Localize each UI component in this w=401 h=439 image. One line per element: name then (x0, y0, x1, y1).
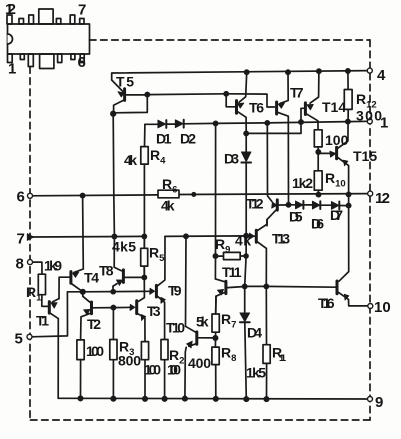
wire T9 collector to T13 base (165, 235, 248, 238)
svg-text:7: 7 (78, 2, 86, 19)
svg-text:D2: D2 (180, 131, 196, 147)
wire T11 emitter to R7 (215, 296, 217, 314)
svg-text:D5: D5 (289, 209, 303, 225)
transistor T15 (318, 122, 348, 195)
wire R10 bottom (317, 190, 319, 194)
node T5 base (145, 93, 149, 97)
svg-text:T10: T10 (166, 320, 185, 336)
svg-text:1k9: 1k9 (44, 258, 62, 274)
svg-text:4k: 4k (235, 233, 251, 249)
svg-text:T13: T13 (272, 231, 290, 247)
transistor T4 (59, 196, 83, 299)
diode D2 (175, 120, 183, 128)
wire pin1 rail (145, 121, 370, 124)
wire diode row (289, 204, 349, 207)
svg-text:4: 4 (377, 67, 386, 84)
svg-text:T5: T5 (116, 74, 134, 90)
node pin12 line T15 emitter (347, 192, 351, 196)
svg-text:100: 100 (86, 343, 104, 359)
svg-text:12: 12 (375, 190, 390, 207)
node pin1 rail T12 emitter tap (265, 121, 269, 125)
svg-text:T3: T3 (147, 303, 161, 319)
svg-text:800: 800 (118, 353, 141, 369)
node rail R11 (264, 397, 268, 401)
wire T6 base lead (226, 94, 235, 107)
wire pin7 line (32, 235, 145, 238)
wire 100 to T15 base node (317, 147, 319, 171)
diode D3 (241, 133, 251, 235)
svg-text:T9: T9 (168, 283, 182, 299)
diode D7 (331, 202, 339, 210)
node T13 base R9 junction (244, 234, 248, 238)
node rail R3 (111, 397, 115, 401)
transistor T11 (215, 279, 244, 314)
svg-text:T15: T15 (353, 148, 377, 164)
wire R4 branch (143, 124, 146, 277)
node T16 base line D4 tap (243, 284, 247, 288)
resistor 100 T3 emitter (141, 342, 148, 360)
svg-text:8: 8 (16, 256, 24, 273)
resistor 100 T2 emitter (77, 340, 84, 360)
transistor T8 (113, 267, 123, 291)
wire tail line to T9 (83, 290, 152, 293)
resistor R1 (38, 274, 45, 295)
svg-text:5: 5 (15, 331, 23, 348)
svg-text:D1: D1 (156, 131, 172, 147)
node R9 right (244, 254, 248, 258)
svg-text:T16: T16 (318, 295, 335, 311)
wire R7 to R8 (214, 332, 216, 347)
node T8 emitter (111, 290, 115, 294)
wire top rail pin4 (112, 71, 370, 80)
node rail D4 (244, 397, 248, 401)
node T15 base (316, 150, 320, 154)
node D2 right junction (214, 121, 218, 125)
node T6 collector D3 anode (244, 131, 248, 135)
svg-text:1k5: 1k5 (246, 365, 266, 381)
svg-text:5k: 5k (196, 314, 209, 330)
svg-text:1k2: 1k2 (292, 175, 313, 191)
wire T10 emitter to rail (185, 347, 186, 398)
svg-text:T4: T4 (84, 270, 99, 286)
svg-text:300: 300 (356, 108, 382, 124)
wire T13 base node down to T16 base line (245, 236, 247, 287)
wire bottom rail (58, 397, 370, 400)
svg-text:T11: T11 (222, 264, 242, 280)
pin 8 terminal (28, 260, 33, 265)
node top rail T7 emitter (286, 70, 290, 74)
wire R8 to rail (215, 365, 217, 399)
svg-text:D6: D6 (311, 216, 324, 232)
svg-text:T7: T7 (290, 85, 304, 101)
svg-text:T12: T12 (246, 196, 264, 212)
node R5 bottom T8 base (142, 275, 146, 279)
svg-text:R4: R4 (150, 147, 166, 167)
wire 100 T3 to rail (144, 360, 146, 399)
wire T15 emitter down to T16 collector (339, 194, 349, 281)
IC bottom pins (8, 54, 85, 69)
resistor R6 (158, 190, 179, 198)
svg-text:4k: 4k (124, 152, 137, 168)
wire pin5 (32, 292, 83, 337)
wire R2 to rail (164, 360, 166, 399)
pin 9 terminal (368, 397, 373, 402)
resistor R12 (344, 71, 352, 122)
diode D6 (312, 201, 320, 209)
transistor T2 (81, 292, 130, 340)
wire T5 base-collector loop (113, 95, 147, 114)
svg-text:D3: D3 (224, 151, 239, 167)
pin 6 terminal (28, 193, 33, 198)
resistor R10 (314, 171, 322, 190)
svg-text:T8: T8 (99, 263, 114, 279)
resistor R3 (110, 340, 117, 360)
node pin1 rail R12 bottom (346, 120, 350, 124)
resistor 100 T14 collector (314, 130, 322, 147)
node pin6 line T4 emitter tap (81, 194, 85, 198)
node rail T2col (78, 396, 82, 400)
svg-text:D7: D7 (330, 207, 343, 223)
wire base rail T5-T6-T7 (147, 94, 274, 107)
node rail T3col (143, 397, 147, 401)
svg-text:T6: T6 (249, 100, 264, 116)
node T10 tap (184, 234, 188, 238)
node pin7 T8 emitter tap (112, 234, 116, 238)
IC top pins (7, 9, 84, 24)
IC package body (8, 24, 90, 54)
node blob right of R6 (192, 193, 195, 196)
wire R3 top lead (112, 308, 114, 340)
svg-text:100: 100 (325, 132, 349, 148)
svg-text:T1: T1 (36, 313, 49, 329)
node R3 top (111, 306, 115, 310)
node rail R8 (214, 397, 218, 401)
svg-text:6: 6 (17, 189, 25, 206)
node pin7 R5 junction (142, 234, 146, 238)
node diode row right (347, 204, 351, 208)
resistor R5 (141, 236, 148, 277)
wire T12 emitter from pin1 rail (267, 123, 272, 202)
transistor T6 (237, 72, 247, 133)
pin 10 terminal (368, 304, 373, 309)
svg-text:T2: T2 (87, 316, 101, 332)
transistor T3 (130, 301, 146, 342)
resistor R9 (216, 252, 247, 259)
svg-text:9: 9 (375, 394, 383, 411)
dashed border left edge (29, 67, 31, 420)
svg-text:R11: R11 (272, 345, 287, 365)
node R10 bottom (316, 193, 320, 197)
svg-text:10: 10 (374, 299, 391, 316)
node T12 base T7 collector (286, 203, 290, 207)
wire pin6 to pin12 line (30, 194, 370, 196)
diode D1 (158, 120, 166, 128)
diode D4 (240, 286, 250, 399)
node T16 base line R11 tap (264, 284, 268, 288)
svg-text:R8: R8 (221, 345, 236, 365)
resistor R11 (263, 286, 270, 399)
transistor T7 (277, 72, 289, 205)
svg-text:7: 7 (17, 231, 25, 248)
pin 5 terminal (27, 334, 32, 339)
svg-text:100: 100 (144, 362, 161, 378)
transistor T5 (112, 80, 148, 113)
wire T16 base line (245, 285, 336, 288)
node T4 collector junction (81, 290, 85, 294)
wire T10 collector column (185, 236, 188, 326)
node R7 R8 junction (213, 336, 217, 340)
node R9 left (213, 254, 217, 258)
dashed border top edge (90, 39, 371, 41)
wire T6 collector segment to T14 base (246, 108, 304, 133)
svg-text:4k5: 4k5 (112, 239, 136, 255)
wire 100 T2 to rail (80, 360, 82, 399)
transistor T12 (267, 200, 289, 226)
pin 1 terminal (367, 119, 372, 124)
transistor T16 (337, 281, 370, 306)
wire T8 base line (125, 276, 144, 278)
transistor T14 (305, 71, 319, 130)
node top rail T14 emitter (317, 69, 321, 73)
wire T5 collector down to T8 emitter (113, 114, 114, 268)
node pin1 rail T14 base (299, 120, 303, 124)
svg-text:R7: R7 (221, 311, 236, 331)
svg-text:1: 1 (8, 61, 16, 78)
resistor R2 (161, 340, 168, 360)
transistor T10 (186, 326, 216, 348)
svg-text:400: 400 (188, 355, 211, 371)
svg-text:6: 6 (78, 54, 86, 71)
svg-text:R5: R5 (149, 245, 165, 265)
diode D5 (296, 201, 304, 209)
svg-text:D4: D4 (247, 325, 262, 341)
resistor R4 (141, 147, 148, 165)
svg-text:R10: R10 (325, 170, 346, 190)
pin 4 terminal (367, 68, 372, 73)
svg-text:12: 12 (5, 1, 16, 18)
wire R3 to rail (112, 360, 114, 399)
pin 12 terminal (368, 191, 373, 196)
wire R5 node down to T3 collector (139, 277, 145, 301)
node T5 collector (111, 111, 116, 116)
transistor T1 (43, 299, 59, 399)
node rail R2 (162, 397, 166, 401)
dashed border right edge (369, 40, 371, 420)
resistor R7 (212, 314, 219, 332)
node top rail R12 top (346, 69, 350, 73)
resistor R8 (212, 347, 219, 365)
node T6 base tap (224, 92, 228, 96)
pin 7 terminal arrow (27, 234, 33, 241)
svg-text:4k: 4k (161, 198, 175, 214)
transistor T9 (150, 236, 166, 339)
wire D2 junction down (214, 123, 216, 279)
node rail T10 (183, 396, 187, 400)
node top rail T6 emitter (245, 70, 249, 74)
svg-text:100: 100 (167, 362, 181, 378)
pin 8 wire to R1 (32, 262, 48, 306)
transistor T13 (248, 220, 267, 287)
dashed border bottom edge (30, 419, 370, 421)
svg-text:T14: T14 (322, 99, 346, 115)
